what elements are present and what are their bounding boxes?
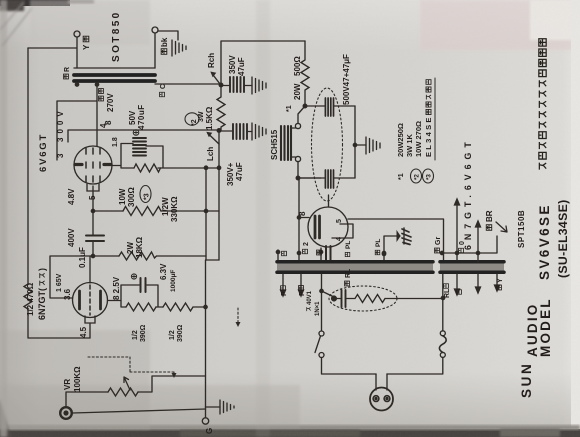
ground xyxy=(252,123,266,140)
capacitor 47uF 350V (filter, hatched) xyxy=(230,77,244,92)
tube V1 base stem xyxy=(87,184,99,191)
svg-text:SV6V6SE: SV6V6SE xyxy=(537,203,552,280)
wire: V3 left pin 8 xyxy=(299,178,309,260)
svg-text:300Ω: 300Ω xyxy=(127,187,136,207)
svg-text:1/2: 1/2 xyxy=(132,330,139,340)
svg-text:Y: Y xyxy=(497,278,504,283)
svg-text:20W250Ω: 20W250Ω xyxy=(396,123,405,157)
svg-text:500V47+47μF: 500V47+47μF xyxy=(342,54,351,105)
terminal (SCH515 bottom) xyxy=(295,156,300,161)
capacitor 0.1uF 400V (coupling) xyxy=(86,236,104,242)
svg-text:3.6: 3.6 xyxy=(63,288,72,300)
svg-text:0: 0 xyxy=(459,241,466,245)
node1 xyxy=(219,83,223,87)
wire to rectifier terminal xyxy=(298,106,305,123)
svg-text:8: 8 xyxy=(298,211,307,216)
wire stubs SCH515 xyxy=(291,128,296,157)
svg-text:40V1: 40V1 xyxy=(307,290,313,305)
svg-text:P: P xyxy=(281,291,288,296)
rail bottom tie xyxy=(206,259,219,261)
tube V3 stem to transformer xyxy=(326,246,331,260)
svg-text:2W: 2W xyxy=(126,242,135,254)
svg-text:1000μF: 1000μF xyxy=(170,270,177,292)
polarity mark xyxy=(133,130,139,136)
terminal (SCH515 top) xyxy=(295,123,300,128)
svg-text:*2: *2 xyxy=(191,119,198,126)
svg-text:): ) xyxy=(37,268,47,271)
wire: node1 up and across B+ top xyxy=(221,41,305,85)
svg-text:1N×1: 1N×1 xyxy=(315,301,321,316)
svg-text:3W 1K: 3W 1K xyxy=(405,133,414,157)
capacitor 50V 470uF (cathode bypass, hatched block) xyxy=(133,138,146,156)
svg-text:Y: Y xyxy=(82,44,91,50)
wire: grid to leak resistor xyxy=(93,210,123,212)
marks ※2※3 circled (notes) xyxy=(411,169,422,183)
wire: cap common to ground xyxy=(355,144,366,146)
svg-text:P: P xyxy=(299,291,306,296)
svg-text:8: 8 xyxy=(104,120,113,125)
node xyxy=(303,104,307,108)
tube V3 internal wire xyxy=(332,224,353,238)
svg-text:100KΩ: 100KΩ xyxy=(73,366,82,392)
wire: cap to 6N7 plate line xyxy=(92,241,94,256)
tube V2 center dashed electrode xyxy=(89,285,91,315)
node: OPT left bottom xyxy=(75,83,78,86)
svg-text:BR: BR xyxy=(485,210,494,222)
wire cap2 to ground xyxy=(247,131,252,133)
wire: to tube V3 top xyxy=(328,195,330,207)
resistor 390 ohm 1/2W b xyxy=(163,303,206,311)
tube V2 top stem wire xyxy=(89,256,91,283)
ground (speaker common) xyxy=(172,40,186,56)
wire: grid down to coupling cap xyxy=(92,211,94,235)
svg-text:4: 4 xyxy=(336,237,343,241)
PT right topside: wire and winding arrows xyxy=(442,236,497,253)
PT topside stubs xyxy=(277,250,279,260)
AC plug body xyxy=(370,388,393,411)
wire terminal bk down to OPT xyxy=(154,33,156,68)
switch xyxy=(319,331,324,336)
bottom-left dark corner xyxy=(0,398,11,437)
mark ※2 circled xyxy=(185,113,199,125)
ground arrow (chassis) xyxy=(384,236,400,260)
svg-text:4.8V: 4.8V xyxy=(67,188,76,205)
wire terminal Y to rail and to OPT xyxy=(28,37,77,68)
capacitor 47uF upper (hatched) xyxy=(325,98,333,116)
node xyxy=(296,176,300,180)
svg-text:MODEL: MODEL xyxy=(538,297,553,357)
common vertical xyxy=(354,106,356,178)
svg-text:Gr: Gr xyxy=(435,237,442,245)
PT bottom right winding arrows xyxy=(455,274,460,295)
capacitor 47uF lower (hatched) xyxy=(325,170,333,188)
svg-text:*1: *1 xyxy=(286,105,293,112)
terminal G xyxy=(205,407,207,418)
svg-text:C: C xyxy=(160,84,167,89)
output transformer SOT850 secondary line xyxy=(74,67,155,69)
svg-text:G: G xyxy=(205,428,214,434)
svg-text:500Ω: 500Ω xyxy=(293,56,302,76)
output transformer SOT850 core bars xyxy=(74,75,155,81)
terminal Y (speaker) xyxy=(74,31,80,37)
svg-text:PL: PL xyxy=(375,239,382,247)
capacitor 1000uF 6.3V xyxy=(141,278,146,292)
svg-text:*1: *1 xyxy=(398,173,405,180)
wire: leak to rail xyxy=(161,210,219,212)
wire: 6N7 plate node line xyxy=(50,256,206,298)
wire: HV winding run xyxy=(348,219,444,260)
svg-text:10W: 10W xyxy=(118,188,127,205)
svg-text:*3: *3 xyxy=(426,174,433,180)
node: OPT plate tap xyxy=(95,83,98,86)
shield dashed wire xyxy=(88,357,174,376)
svg-text:bk: bk xyxy=(160,37,169,47)
input jack xyxy=(60,407,72,419)
svg-text:1/2 470Ω: 1/2 470Ω xyxy=(26,282,35,316)
ground xyxy=(252,77,266,94)
svg-text:6.3V: 6.3V xyxy=(159,263,168,280)
svg-text:(SU-EL34SE): (SU-EL34SE) xyxy=(556,200,570,278)
pilot lamp dashed envelope xyxy=(329,286,397,311)
fuse S-element xyxy=(439,336,446,353)
ground xyxy=(366,137,380,154)
wire: node1 to cap xyxy=(221,85,230,87)
wire: V2 cathode network xyxy=(108,285,164,307)
wire upper cap to common xyxy=(334,105,356,107)
svg-text:SOT850: SOT850 xyxy=(111,10,122,62)
pink tinge top right xyxy=(420,0,580,50)
svg-text:1.5KΩ: 1.5KΩ xyxy=(205,106,214,130)
svg-text:RL: RL xyxy=(444,288,451,298)
svg-text:6V6GT: 6V6GT xyxy=(38,133,49,172)
arrow 6.3V winding xyxy=(455,199,460,260)
resistor 20W 500ohm (B+ main dropper, vertical) xyxy=(301,41,309,106)
svg-text:270V: 270V xyxy=(106,93,115,112)
pilot cap plates xyxy=(342,290,346,307)
wire bk to ground xyxy=(158,31,178,40)
svg-text:R: R xyxy=(64,67,71,72)
svg-text:350V+: 350V+ xyxy=(226,162,235,186)
svg-text:PL: PL xyxy=(345,241,352,249)
node xyxy=(91,254,94,257)
svg-text:20W: 20W xyxy=(293,83,302,100)
svg-text:SPT150B: SPT150B xyxy=(517,210,526,248)
wire: OPT B+ end to node1 xyxy=(155,83,221,85)
wire: primary to switch xyxy=(321,274,323,331)
arrow Rch (B+ to right channel) xyxy=(212,74,222,87)
svg-text:*3: *3 xyxy=(144,193,151,200)
right paper edge bright strip xyxy=(571,0,580,437)
node: cathode rail joins xyxy=(204,166,207,169)
rail b (from node2) xyxy=(218,133,220,260)
svg-text:400V: 400V xyxy=(67,228,76,247)
resistor 470 ohm 1/2W (feedback, vertical) xyxy=(24,284,32,314)
label white xyxy=(282,251,287,255)
svg-text:4.5: 4.5 xyxy=(79,326,88,338)
svg-text:8 2.5V: 8 2.5V xyxy=(112,276,121,300)
svg-text:1 65V: 1 65V xyxy=(56,273,63,292)
svg-text:3W: 3W xyxy=(198,111,205,122)
wire: node2 to cap xyxy=(219,130,232,132)
label heater black xyxy=(317,250,322,255)
svg-text:Lch: Lch xyxy=(206,147,215,161)
svg-text:390Ω: 390Ω xyxy=(177,324,184,342)
title stereo main amp xyxy=(539,163,546,170)
top-left dark corner smudge xyxy=(0,0,70,6)
bottom dark band xyxy=(0,429,580,437)
svg-text:Rch: Rch xyxy=(207,53,216,68)
capacitor 47uF 350V (filter 2, hatched) xyxy=(233,124,247,139)
svg-text:47uF: 47uF xyxy=(235,162,244,181)
wire: V1 grid stem xyxy=(92,186,94,211)
tube 6V6GT V1 envelope xyxy=(74,146,112,184)
wire: plate branch left xyxy=(57,101,97,160)
svg-text:1/2: 1/2 xyxy=(169,330,176,340)
tube V1 plate bars xyxy=(75,163,111,166)
svg-text:390Ω: 390Ω xyxy=(140,324,147,342)
svg-text:SCH515: SCH515 xyxy=(270,129,279,160)
ground xyxy=(220,400,234,414)
svg-text:2: 2 xyxy=(303,242,310,246)
rail a (from cathode line) xyxy=(205,168,207,260)
terminal bk (speaker) xyxy=(152,27,158,33)
svg-text:470uF: 470uF xyxy=(137,104,146,130)
wire: pilot line from primary xyxy=(322,291,335,297)
pilot lamp node dot xyxy=(332,296,337,301)
svg-text:0.1uF: 0.1uF xyxy=(78,247,87,268)
wire jack sleeve to ground terminal xyxy=(73,409,206,413)
resistor 390 ohm 1/2W a xyxy=(126,303,156,311)
svg-text:EL34SE: EL34SE xyxy=(424,115,433,157)
shield dashed wire 2 xyxy=(237,308,239,324)
main vertical rail to ground terminal xyxy=(205,260,207,407)
wire lower cap xyxy=(299,177,355,179)
node2 xyxy=(217,129,221,133)
arrow to SPT150B label xyxy=(496,222,507,232)
svg-text:330KΩ: 330KΩ xyxy=(170,196,179,222)
svg-text:5: 5 xyxy=(336,219,343,223)
arrow Lch xyxy=(208,134,219,145)
rectifier SCH515 plate bars xyxy=(281,126,291,160)
svg-text:VR: VR xyxy=(63,379,72,390)
label white w xyxy=(457,290,462,294)
VR wiper arrow xyxy=(124,377,130,390)
power transformer core bars right xyxy=(440,263,504,271)
wire: right primary leg with fuse xyxy=(442,274,444,331)
svg-text:50V: 50V xyxy=(128,110,137,125)
resistor 18K 2W (plate load) xyxy=(119,252,157,260)
AC plug stems xyxy=(376,374,387,390)
volume VR 100K xyxy=(66,392,108,406)
PT bottom winding arrows left xyxy=(281,274,286,296)
wire: V1 cathode to RC network xyxy=(112,144,219,169)
tube rectifier/heater V3 envelope xyxy=(308,207,348,247)
tube V3 cathode bars xyxy=(315,216,320,238)
svg-text:300V: 300V xyxy=(56,107,65,142)
wire VR out xyxy=(138,376,206,392)
tube V2 bottom stem xyxy=(85,316,95,338)
wire: left feedback rail xyxy=(28,48,90,338)
svg-text:1.8: 1.8 xyxy=(112,137,119,147)
wire: screen line 270V xyxy=(68,130,219,142)
svg-text:10W 270Ω: 10W 270Ω xyxy=(414,121,423,157)
capacitor block 500V 47+47uF dashed can xyxy=(312,88,343,201)
polarity mark xyxy=(131,274,136,279)
resistor 330K 1/2W (grid leak) xyxy=(123,207,161,216)
tube 6N7GT V2 envelope xyxy=(73,283,108,318)
tube V1 grid dashes xyxy=(86,148,100,182)
wire: B+ into cap block xyxy=(305,105,325,107)
tube V2 grid bars xyxy=(80,291,101,309)
svg-text:18KΩ: 18KΩ xyxy=(135,236,144,258)
pilot resistor xyxy=(334,295,443,303)
arrow winding 2 xyxy=(476,221,481,262)
svg-text:6N7GT.6V6GT: 6N7GT.6V6GT xyxy=(463,137,473,250)
svg-text:1/2W: 1/2W xyxy=(161,197,170,216)
svg-text:3: 3 xyxy=(56,153,65,158)
svg-text:SUN: SUN xyxy=(519,362,534,398)
svg-text:350V: 350V xyxy=(228,55,237,74)
wire: SCH515 bottom to cap block xyxy=(298,162,321,178)
mark ※3 circled xyxy=(140,186,151,203)
node: grid junction xyxy=(91,209,94,212)
resistor VR zigzag xyxy=(108,388,138,396)
resistor 300 ohm 10W (cathode) xyxy=(134,164,161,172)
wire: OPT to 6V6 plate xyxy=(96,84,98,146)
wire to chassis ground xyxy=(206,406,221,408)
svg-text:5: 5 xyxy=(88,195,97,200)
resistor 1.5K 3W (B+ dropper, vertical) xyxy=(217,85,225,130)
svg-text:*2: *2 xyxy=(414,174,421,180)
power transformer SPT150B core bars left xyxy=(277,263,433,271)
label tap xyxy=(99,96,104,101)
svg-text:47uF: 47uF xyxy=(237,57,246,76)
left edge shading + diagonal paper streaks xyxy=(0,0,7,437)
wire cap to ground xyxy=(244,85,252,87)
AC plug pins xyxy=(373,396,379,402)
svg-text:RL: RL xyxy=(345,268,352,278)
svg-text:6N7GT(: 6N7GT( xyxy=(37,288,47,320)
note underline xyxy=(434,78,436,160)
